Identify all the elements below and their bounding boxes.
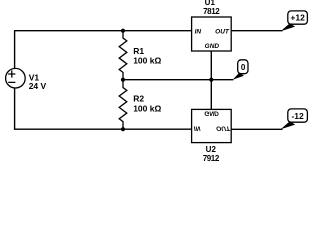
svg-text:100 kΩ: 100 kΩ [133, 55, 161, 65]
wire left rail lower (V1 bottom to corner) [14, 88, 16, 129]
wire U1 GND down to U2 GND [210, 51, 212, 109]
junction node: R1 top / top rail [121, 29, 125, 33]
svg-text:IN: IN [195, 29, 202, 36]
wire top rail from V1 to U1 IN [15, 30, 192, 32]
voltage source V1 [6, 68, 26, 88]
net flag 0 tail [233, 73, 244, 80]
svg-text:0: 0 [241, 63, 246, 72]
svg-text:100 kΩ: 100 kΩ [133, 103, 161, 113]
wire middle from R1/R2 node to 0 tail [123, 79, 233, 81]
resistor R1 [119, 31, 127, 80]
svg-text:GND: GND [204, 109, 219, 116]
svg-text:7812: 7812 [203, 7, 220, 16]
svg-text:R2: R2 [133, 94, 144, 104]
net flag -12 box [288, 109, 308, 122]
regulator U1 body [192, 17, 232, 51]
wire U1 OUT to +12 tail [231, 30, 283, 32]
wire bottom rail from V1 to U2 IN [14, 128, 192, 130]
net flag +12 box [288, 11, 308, 24]
svg-text:GND: GND [205, 43, 220, 50]
svg-text:OUT: OUT [215, 29, 230, 36]
junction node: GND wire / middle wire [209, 78, 213, 82]
resistor R2 [119, 80, 127, 130]
svg-text:-12: -12 [291, 111, 304, 121]
junction node: R1/R2 midpoint [121, 78, 125, 82]
svg-text:U2: U2 [206, 145, 217, 154]
svg-text:IN: IN [194, 125, 201, 132]
svg-text:U1: U1 [205, 0, 216, 7]
svg-text:+12: +12 [290, 13, 305, 23]
wire left rail upper (V1 top to corner) [14, 30, 16, 68]
net flag 0 box [238, 60, 248, 74]
svg-text:24 V: 24 V [29, 81, 47, 91]
svg-text:7912: 7912 [203, 154, 220, 163]
regulator U2 body (flipped vertically) [192, 109, 232, 142]
svg-text:OUT: OUT [216, 125, 231, 132]
net flag -12 tail [281, 121, 296, 129]
junction node: R2 bottom / bottom rail [121, 127, 125, 131]
net flag +12 tail [281, 23, 296, 31]
wire U2 OUT to -12 tail [231, 128, 283, 130]
